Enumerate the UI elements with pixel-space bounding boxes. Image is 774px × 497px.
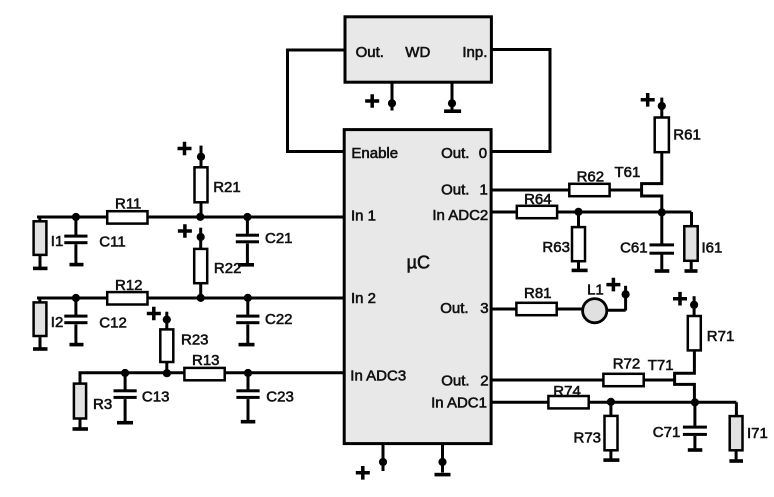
svg-text:I71: I71 [747,425,768,442]
svg-text:1: 1 [480,182,488,199]
svg-text:I61: I61 [702,240,723,257]
svg-text:R22: R22 [214,260,242,277]
svg-text:R23: R23 [181,332,209,349]
svg-text:R64: R64 [524,191,552,208]
svg-text:C13: C13 [142,389,170,406]
svg-text:In ADC1: In ADC1 [431,395,487,412]
svg-text:Enable: Enable [351,145,398,162]
svg-text:I2: I2 [51,314,64,331]
svg-text:C71: C71 [653,424,681,441]
svg-text:R13: R13 [192,352,220,369]
svg-text:C11: C11 [99,233,125,250]
svg-text:C21: C21 [265,230,293,247]
svg-text:R74: R74 [553,383,581,400]
svg-text:R12: R12 [115,277,143,294]
svg-text:Inp.: Inp. [462,44,487,61]
svg-text:In ADC3: In ADC3 [350,368,406,385]
svg-text:R62: R62 [577,169,605,186]
svg-text:C23: C23 [266,389,294,406]
svg-text:R81: R81 [524,285,552,302]
svg-text:µC: µC [407,253,430,273]
svg-text:Out.: Out. [440,300,468,317]
svg-text:R71: R71 [707,328,735,345]
svg-text:3: 3 [480,300,488,317]
svg-text:C12: C12 [99,314,127,331]
svg-text:In 2: In 2 [351,290,376,307]
svg-text:In ADC2: In ADC2 [432,207,488,224]
svg-text:R3: R3 [93,396,112,413]
svg-text:In 1: In 1 [351,208,376,225]
svg-text:Out.: Out. [441,373,469,390]
svg-text:T61: T61 [615,164,641,181]
svg-text:R11: R11 [115,196,141,213]
svg-text:R72: R72 [613,356,641,373]
svg-text:Out.: Out. [356,44,384,61]
svg-text:C61: C61 [620,240,648,257]
svg-text:Out.: Out. [441,182,469,199]
svg-text:I1: I1 [51,233,64,250]
svg-text:T71: T71 [648,357,674,374]
svg-text:R73: R73 [574,430,602,447]
svg-text:R21: R21 [213,179,241,196]
svg-text:C22: C22 [265,311,293,328]
svg-text:0: 0 [479,145,487,162]
svg-text:Out.: Out. [441,145,469,162]
svg-text:R63: R63 [542,239,570,256]
svg-text:2: 2 [480,373,488,390]
svg-text:R61: R61 [673,127,701,144]
svg-text:WD: WD [405,44,430,61]
svg-text:L1: L1 [587,282,604,299]
